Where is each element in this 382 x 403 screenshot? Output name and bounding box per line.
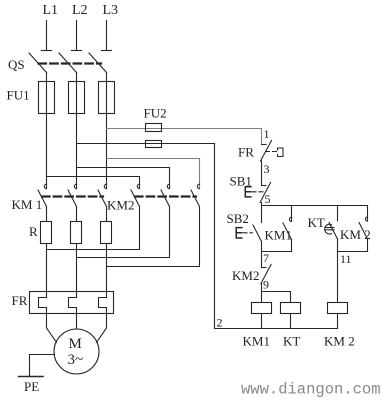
svg-text:KM1: KM1: [265, 228, 292, 243]
wire below resistors to FR: [46, 244, 48, 298]
svg-text:KT: KT: [308, 215, 325, 230]
wire phase L2 vertical: [76, 73, 78, 189]
svg-text:7: 7: [263, 251, 269, 265]
coil KT: [281, 303, 301, 349]
svg-text:M: M: [69, 336, 82, 352]
thermal relay FR heater box: [12, 292, 114, 314]
svg-text:R: R: [29, 224, 38, 239]
wire phase L1 vertical: [46, 73, 48, 189]
switch QS: [8, 53, 107, 73]
node 7: [262, 251, 270, 268]
wire L1 feeder to KM2 pole 1: [47, 177, 140, 189]
svg-text:QS: QS: [8, 57, 25, 72]
pushbutton SB2 (NO start): [227, 206, 262, 252]
pushbutton SB1 (NC stop): [230, 174, 271, 203]
wire L3 feeder to KM2 pole 3: [107, 159, 200, 189]
coil KM1: [243, 303, 272, 349]
svg-text:L1: L1: [43, 3, 59, 18]
fuse FU2: [144, 106, 167, 148]
svg-text:1: 1: [264, 127, 270, 141]
svg-text:KM1: KM1: [243, 334, 270, 349]
wire L3 to control node 1: [107, 129, 262, 145]
svg-text:FR: FR: [12, 293, 28, 308]
relay contact FR (NC): [238, 141, 283, 162]
fuse FU1: [7, 82, 115, 114]
node L2: [72, 3, 88, 51]
time relay contact KT (NO delayed): [308, 206, 338, 252]
svg-text:KM 2: KM 2: [340, 227, 371, 242]
svg-text:KT: KT: [283, 334, 300, 349]
coil KM2: [324, 303, 355, 349]
wire KM2 pole 2 bypass: [77, 207, 170, 258]
svg-text:www.diangon.com: www.diangon.com: [241, 381, 381, 399]
svg-text:5: 5: [265, 192, 271, 206]
node L1: [42, 3, 59, 51]
contactor aux contact KM2 (NO): [338, 206, 371, 252]
svg-text:L3: L3: [103, 3, 119, 18]
wire FR to motor: [46, 308, 48, 328]
node 3: [262, 161, 270, 186]
wire KM2 pole 3 bypass: [107, 207, 200, 267]
svg-text:FU2: FU2: [144, 106, 167, 121]
svg-text:11: 11: [340, 252, 352, 266]
node 11: [338, 252, 352, 303]
svg-text:FU1: FU1: [7, 88, 30, 103]
svg-text:PE: PE: [24, 379, 39, 394]
node 9: [262, 278, 270, 303]
wire L2 to control rail: [77, 143, 215, 145]
wire KM2 pole 1 bypass: [47, 207, 140, 250]
svg-text:FR: FR: [238, 145, 254, 160]
node 5: [262, 192, 368, 206]
svg-text:KM 2: KM 2: [324, 334, 355, 349]
svg-text:KM2: KM2: [107, 198, 134, 213]
resistor R (three): [29, 222, 112, 244]
wire node 9 to coils: [262, 292, 291, 303]
wire left control rail: [214, 144, 216, 329]
svg-text:2: 2: [217, 316, 223, 330]
svg-text:L2: L2: [72, 3, 88, 18]
contactor KM2 main contacts: [107, 184, 200, 212]
node 2: [215, 316, 338, 330]
contactor KM1 main contacts: [12, 184, 107, 212]
svg-text:KM2: KM2: [232, 268, 259, 283]
svg-text:9: 9: [263, 278, 269, 292]
contactor aux contact KM1 (NO): [262, 206, 292, 252]
svg-text:SB2: SB2: [227, 211, 249, 226]
wire phase L3 vertical: [106, 73, 108, 189]
contactor contact KM2 (NC interlock): [232, 265, 271, 284]
node L3: [102, 3, 119, 51]
wire KM1 poles to resistors: [46, 207, 48, 222]
svg-text:3~: 3~: [68, 352, 84, 368]
motor M 3~: [54, 329, 99, 374]
svg-text:KM 1: KM 1: [12, 197, 43, 212]
ground PE: [19, 355, 55, 395]
wire L2 feeder to KM2 pole 2: [77, 168, 170, 189]
svg-text:3: 3: [264, 162, 270, 176]
